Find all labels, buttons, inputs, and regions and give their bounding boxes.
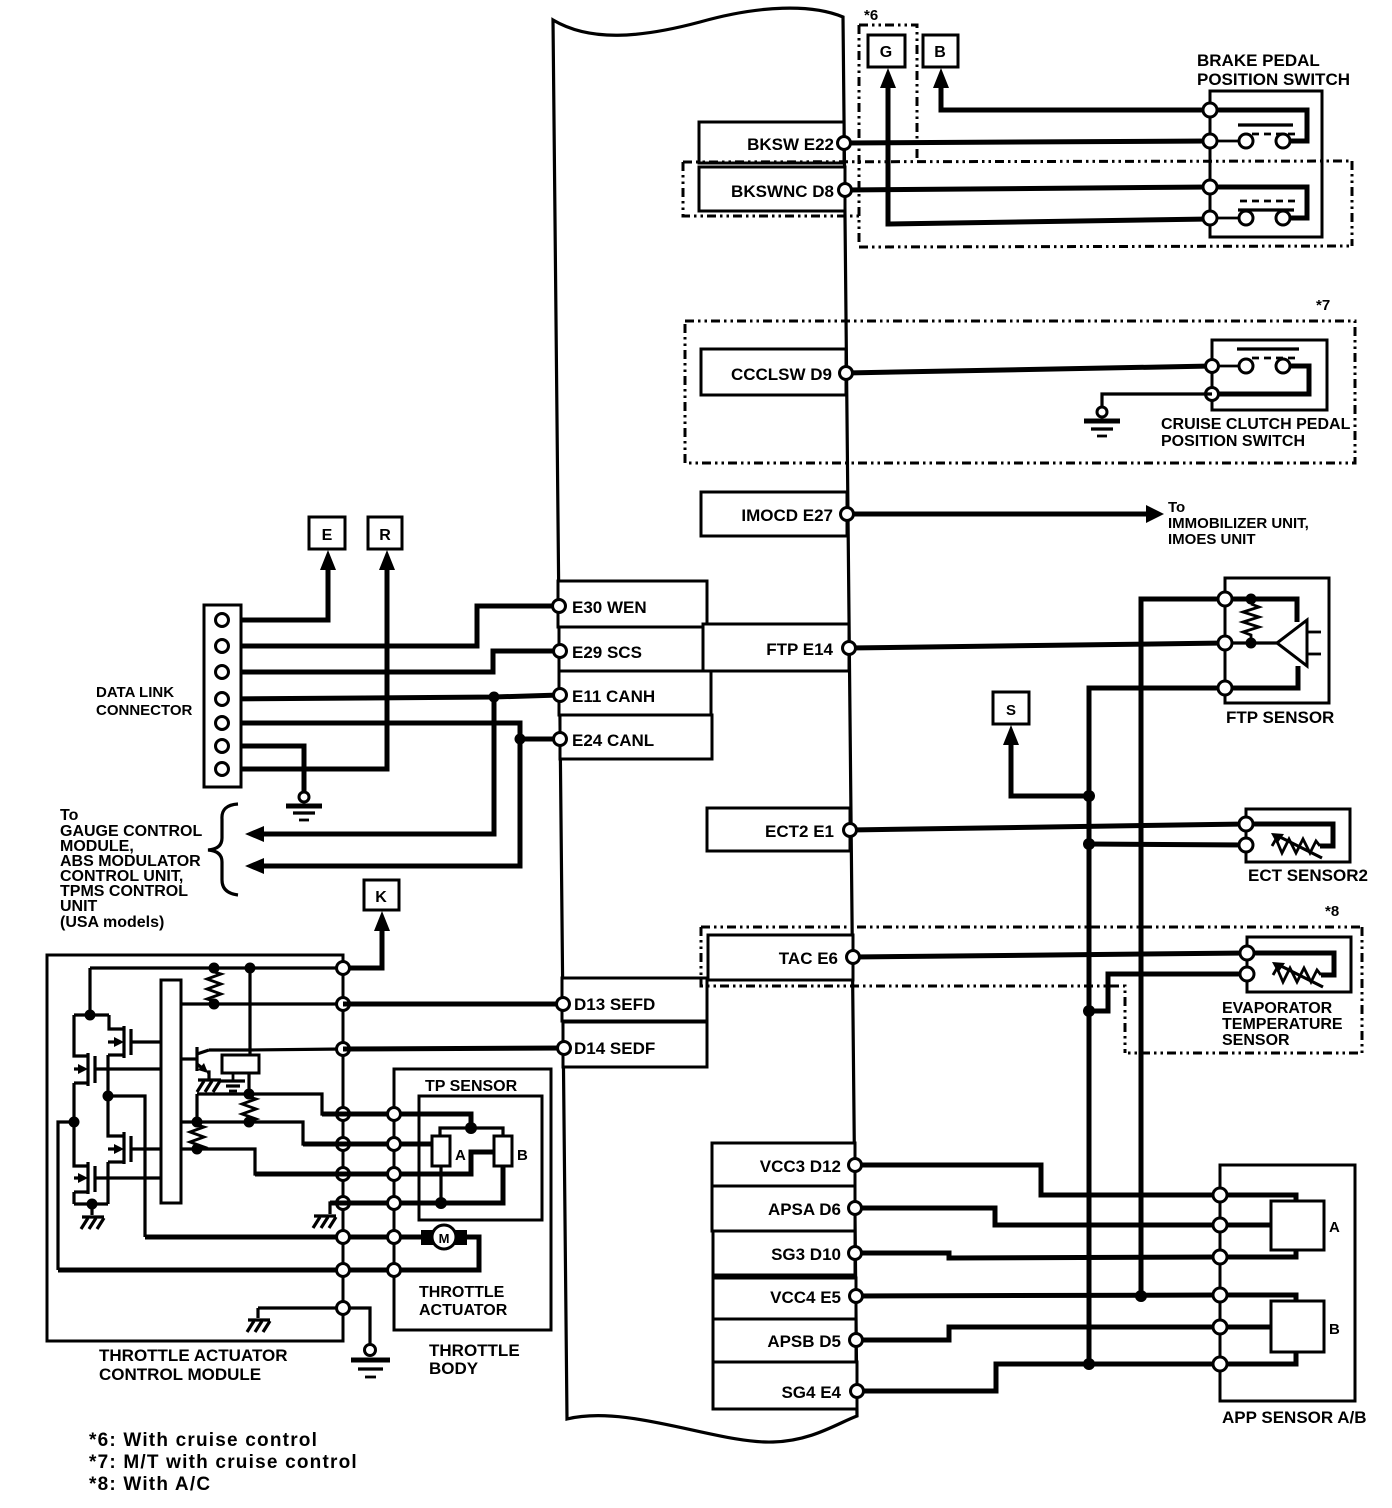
pin box E29 SCS — [559, 627, 709, 671]
svg-text:*8: With A/C: *8: With A/C — [89, 1474, 211, 1495]
svg-text:*6: *6 — [864, 7, 878, 24]
wire sensor-ground row stub — [330, 1203, 343, 1214]
node TP supply split — [465, 1122, 477, 1134]
wire split to A and B tops — [440, 1128, 503, 1136]
wire motor row A — [145, 1235, 421, 1240]
pin box D13 SEFD — [562, 978, 707, 1021]
wire CANL branch to gauge arrow — [245, 739, 520, 874]
svg-text:SG4 E4: SG4 E4 — [781, 1383, 841, 1402]
TACM connector pins — [337, 962, 350, 1315]
DLC pins — [216, 614, 229, 776]
wire DLC pin5 to E24 CANL — [222, 723, 560, 739]
connector B box — [923, 35, 958, 67]
pin box BKSW E22 — [699, 122, 844, 163]
node relay/R2 top — [244, 1089, 255, 1100]
svg-text:K: K — [375, 889, 387, 906]
wire bridge bottom rail — [74, 1202, 108, 1205]
FTP pins — [1218, 592, 1232, 695]
transistor Q3 (high side B) — [74, 1053, 161, 1086]
wire APP A top — [1220, 1195, 1296, 1201]
wire Q3 source to node B — [72, 1083, 75, 1122]
wire supply rail row — [90, 966, 343, 969]
wire top node spread — [74, 1013, 109, 1016]
wire CANH branch to gauge arrow — [245, 697, 494, 842]
svg-text:IMOCD E27: IMOCD E27 — [741, 506, 833, 525]
pin box APSA D6 — [712, 1186, 855, 1231]
transistor Q2 (high side A) — [108, 1026, 161, 1058]
evap pins — [1240, 946, 1254, 981]
svg-text:APP SENSOR A/B: APP SENSOR A/B — [1222, 1408, 1367, 1427]
svg-text:THROTTLE: THROTTLE — [419, 1284, 505, 1301]
svg-text:SENSOR: SENSOR — [1222, 1032, 1290, 1049]
wire APP A wiper — [1220, 1223, 1271, 1228]
*6 dash-dot boundary — [683, 25, 1352, 247]
svg-text:*7: *7 — [1316, 297, 1330, 314]
node FTP resistor bottom — [1246, 638, 1257, 649]
wire ECT2 E1 row — [850, 824, 1246, 830]
ground (TACM case) — [247, 1320, 270, 1332]
wire TP wiper B — [394, 1152, 494, 1174]
brace to gauge modules — [208, 804, 238, 895]
wire G to lower brake switch — [880, 68, 1210, 224]
wire relay to ground — [232, 1073, 235, 1080]
wire DLC pin4 to E11 CANH — [222, 695, 560, 699]
svg-text:To: To — [1168, 499, 1185, 516]
wire row to pin step — [181, 1149, 343, 1174]
svg-text:B: B — [517, 1147, 528, 1164]
wire BKSW E22 to switch — [844, 141, 1210, 143]
pin BKSWNC D8 — [839, 184, 852, 197]
wire IMOCD E27 to immobilizer — [847, 505, 1164, 523]
ECM pins E30 E29 E11 E24 — [553, 600, 567, 746]
potentiometer A (APP) — [1271, 1201, 1324, 1250]
node rail R1 — [209, 963, 220, 974]
svg-text:UNIT: UNIT — [60, 898, 98, 915]
TB connector pins — [388, 1108, 401, 1277]
ground (cruise switch) — [1084, 407, 1120, 436]
node bridge ground — [87, 1199, 98, 1210]
svg-text:THROTTLE ACTUATOR: THROTTLE ACTUATOR — [99, 1346, 288, 1365]
switch connector pins — [1203, 103, 1217, 225]
svg-text:ECT SENSOR2: ECT SENSOR2 — [1248, 866, 1368, 885]
connector G box — [868, 35, 905, 67]
pin box D14 SEDF — [563, 1022, 707, 1067]
thermistor evaporator — [1247, 953, 1334, 987]
wire stub to chassis ground — [256, 1308, 259, 1318]
*7 dash-dot box — [685, 321, 1355, 463]
wire row D13 from driver IC — [181, 1002, 343, 1005]
wire row from driver IC to SEDF step — [181, 1122, 343, 1144]
APP pins — [1213, 1188, 1227, 1371]
label To IMMOBILIZER UNIT — [1168, 499, 1309, 548]
wire to Q3 drain — [74, 1015, 88, 1056]
wire DLC pin1 to E — [222, 550, 336, 620]
node E24 CANL branch — [515, 734, 526, 745]
wire B to upper brake switch — [933, 68, 1210, 110]
pin box CCCLSW D9 — [701, 349, 846, 395]
ECM right side lower pins — [849, 1159, 864, 1398]
upper switch contacts and bar — [1210, 110, 1307, 148]
label THROTTLE ACTUATOR CONTROL MODULE — [99, 1346, 288, 1384]
wire row SEFD out — [197, 1094, 343, 1114]
svg-text:M: M — [439, 1231, 450, 1246]
wire FTP vcc down to VCC4 net — [1141, 599, 1225, 1296]
wire node B to motor row — [58, 1122, 74, 1270]
wire SG3 D10 row — [855, 1253, 1220, 1258]
node A (bridge output) — [103, 1091, 114, 1102]
svg-text:CONNECTOR: CONNECTOR — [96, 702, 193, 719]
wire rail to ground — [90, 1204, 93, 1215]
wire to Q2 drain — [109, 1015, 124, 1029]
resistor FTP pull-up — [1243, 604, 1259, 641]
svg-text:APSB D5: APSB D5 — [767, 1332, 841, 1351]
wire Q2 source to node A — [106, 1055, 109, 1096]
wire motor row B — [58, 1268, 394, 1273]
wire Q5 source to bottom rail — [72, 1192, 75, 1204]
potentiometer B (APP) — [1271, 1301, 1324, 1352]
pin FTP E14 — [843, 642, 856, 655]
connector K box — [364, 880, 399, 910]
svg-text:CONTROL MODULE: CONTROL MODULE — [99, 1365, 261, 1384]
svg-text:To: To — [60, 807, 79, 824]
wire node B to Q5 drain — [74, 1122, 88, 1166]
node rail relay feed — [245, 963, 256, 974]
pin box VCC4 E5 — [713, 1278, 856, 1319]
*8 dash-dot boundary — [701, 927, 1362, 1053]
wire FTP gnd down to SG4 net — [1089, 688, 1225, 1364]
ground (sensor return) — [313, 1216, 336, 1228]
cruise switch contacts — [1212, 349, 1309, 394]
connector S box — [993, 692, 1029, 724]
ground (H-bridge) — [81, 1217, 104, 1229]
svg-text:D14 SEDF: D14 SEDF — [574, 1039, 655, 1058]
wire D14 SEDF row — [343, 1048, 564, 1049]
node H-bridge top — [85, 1010, 96, 1021]
ground (data link connector) — [286, 792, 322, 820]
pin IMOCD E27 — [841, 508, 854, 521]
wire TP ground row — [394, 1166, 503, 1203]
resistor R1 — [207, 968, 221, 1004]
APP sensor box — [1220, 1165, 1355, 1401]
svg-text:POSITION SWITCH: POSITION SWITCH — [1161, 433, 1305, 450]
pin BKSW E22 — [838, 137, 851, 150]
pin box E11 CANH — [559, 671, 711, 715]
ground (Q1 emitter) — [197, 1080, 221, 1092]
wire S to SG4 net — [1003, 725, 1095, 802]
wire CCCLSW D9 to cruise switch — [846, 366, 1212, 373]
label CRUISE CLUTCH PEDAL POSITION SWITCH — [1161, 416, 1351, 450]
pin box APSB D5 — [713, 1319, 856, 1362]
transistor Q5 (low side B) — [74, 1162, 161, 1194]
svg-text:TEMPERATURE: TEMPERATURE — [1222, 1016, 1343, 1033]
wire APP B top — [1220, 1295, 1296, 1301]
wire bottom pin to earth ground — [343, 1308, 370, 1344]
connector R box — [368, 517, 402, 549]
wire DLC pin6 to ground — [222, 746, 304, 792]
pins D13 D14 — [557, 998, 571, 1055]
wire APSB D5 row — [856, 1327, 1220, 1340]
svg-text:FTP E14: FTP E14 — [766, 640, 833, 659]
pin box ECT2 E1 — [707, 808, 850, 851]
pin box SG3 D10 — [713, 1231, 855, 1275]
TACM box — [47, 955, 343, 1341]
svg-text:A: A — [1329, 1219, 1340, 1236]
ECT2 pins — [1239, 817, 1253, 852]
svg-text:IMOES UNIT: IMOES UNIT — [1168, 531, 1256, 548]
node R3 top — [192, 1117, 203, 1128]
node FTP resistor top — [1246, 594, 1257, 605]
wire FTP E14 row — [849, 643, 1225, 648]
ground (relay) — [221, 1081, 245, 1091]
node A bottom — [435, 1197, 447, 1209]
connector E box — [309, 517, 345, 549]
pin box TAC E6 — [708, 935, 853, 980]
pin box FTP E14 — [703, 624, 849, 671]
label THROTTLE BODY — [429, 1341, 520, 1378]
wire TP supply — [394, 1114, 471, 1128]
ground (throttle body earth) — [351, 1345, 390, 1378]
cruise clutch switch box — [1212, 340, 1327, 410]
svg-text:E29 SCS: E29 SCS — [572, 643, 642, 662]
wire relay to node — [247, 1073, 250, 1094]
TP sensor box — [419, 1096, 542, 1220]
wire A bottom — [439, 1166, 442, 1203]
pin box BKSWNC D8 — [699, 167, 845, 211]
wire TP wiper A — [394, 1142, 432, 1147]
wire DLC pin7 to R — [222, 550, 395, 769]
svg-text:BKSWNC D8: BKSWNC D8 — [731, 182, 834, 201]
svg-text:APSA D6: APSA D6 — [768, 1200, 841, 1219]
pin TAC E6 — [847, 951, 860, 964]
svg-text:POSITION SWITCH: POSITION SWITCH — [1197, 70, 1350, 89]
svg-text:B: B — [934, 44, 946, 61]
potentiometer A — [432, 1136, 450, 1166]
wire APP B bottom — [1220, 1352, 1296, 1364]
node R1 bottom — [209, 999, 220, 1010]
pin box E30 WEN — [558, 581, 707, 627]
ECT sensor2 box — [1246, 809, 1350, 862]
wire K to TACM — [343, 911, 390, 968]
svg-text:(USA models): (USA models) — [60, 914, 164, 931]
resistor R2 — [242, 1094, 256, 1122]
svg-text:CRUISE CLUTCH PEDAL: CRUISE CLUTCH PEDAL — [1161, 416, 1351, 433]
svg-text:G: G — [880, 44, 892, 61]
svg-text:BRAKE PEDAL: BRAKE PEDAL — [1197, 51, 1320, 70]
evaporator sensor box — [1247, 937, 1351, 992]
svg-text:E24 CANL: E24 CANL — [572, 731, 654, 750]
svg-text:*6: With cruise control: *6: With cruise control — [89, 1430, 318, 1451]
pin box E24 CANL — [560, 715, 712, 759]
svg-text:E11 CANH: E11 CANH — [572, 687, 655, 706]
driver IC bar — [161, 980, 181, 1203]
wire APSA D6 row — [855, 1208, 1220, 1225]
svg-text:TAC E6: TAC E6 — [779, 949, 838, 968]
svg-text:A: A — [455, 1147, 466, 1164]
FTP internal supply — [1225, 599, 1297, 622]
wire VCC4 E5 row — [856, 1290, 1220, 1302]
wire D13 SEFD row — [343, 1002, 563, 1007]
svg-text:ACTUATOR: ACTUATOR — [419, 1302, 508, 1319]
transistor Q4 (low side A) — [108, 1132, 161, 1164]
potentiometer B — [494, 1136, 512, 1166]
svg-text:SG3 D10: SG3 D10 — [771, 1245, 841, 1264]
wire node A to Q4 drain — [108, 1096, 124, 1136]
svg-text:EVAPORATOR: EVAPORATOR — [1222, 1000, 1333, 1017]
svg-text:FTP SENSOR: FTP SENSOR — [1226, 708, 1334, 727]
lower switch contacts and bar — [1210, 187, 1307, 225]
wire APP A bottom — [1220, 1250, 1296, 1257]
svg-text:B: B — [1329, 1321, 1340, 1338]
pin CCCLSW D9 — [840, 367, 853, 380]
label To GAUGE CONTROL MODULE list — [60, 807, 202, 931]
wire APP B wiper — [1220, 1325, 1271, 1330]
node B (bridge output) — [69, 1117, 80, 1128]
pin box IMOCD E27 — [701, 492, 847, 536]
svg-text:*7: M/T with cruise control: *7: M/T with cruise control — [89, 1452, 358, 1473]
wire row TACM to TB pins — [255, 1114, 394, 1203]
node R3 bottom — [192, 1144, 203, 1155]
wire relay feed vertical — [248, 968, 251, 1055]
wire R3 feed vertical — [195, 1094, 198, 1122]
label BRAKE PEDAL POSITION SWITCH — [1197, 51, 1350, 89]
svg-text:BKSW E22: BKSW E22 — [747, 135, 834, 154]
wire ECT2 return to SG4 net — [1083, 838, 1246, 850]
wire FTP signal — [1225, 641, 1277, 644]
svg-text:R: R — [379, 527, 391, 544]
svg-text:DATA LINK: DATA LINK — [96, 684, 174, 701]
wire SG4 E4 row — [857, 1358, 1220, 1391]
transistor Q1 — [181, 1047, 209, 1079]
resistor R3 — [190, 1122, 204, 1149]
wire VCC3 D12 row — [855, 1165, 1220, 1195]
wire bottom pin row to grounds — [258, 1306, 343, 1309]
ECM/PCM body outline (torn edges) — [553, 8, 857, 1442]
FTP sensor box — [1225, 578, 1329, 703]
pin ECT2 E1 — [844, 824, 857, 837]
wire H-bridge top feed — [88, 968, 91, 1015]
svg-text:CCCLSW D9: CCCLSW D9 — [731, 365, 832, 384]
pin box VCC3 D12 — [712, 1143, 855, 1186]
label EVAPORATOR TEMPERATURE SENSOR — [1222, 1000, 1343, 1049]
cruise switch pins — [1206, 360, 1219, 401]
wire motor return — [394, 1237, 479, 1270]
svg-text:IMMOBILIZER UNIT,: IMMOBILIZER UNIT, — [1168, 515, 1309, 532]
svg-text:*8: *8 — [1325, 903, 1339, 920]
brake pedal position switch box — [1210, 91, 1322, 237]
throttle body box — [394, 1069, 551, 1330]
wire row D14 collector — [209, 1049, 343, 1050]
wire BKSWNC D8 to switch — [845, 187, 1210, 190]
svg-text:VCC4 E5: VCC4 E5 — [770, 1288, 841, 1307]
label THROTTLE ACTUATOR — [419, 1284, 508, 1319]
svg-text:BODY: BODY — [429, 1359, 479, 1378]
wire evap return to SG4 net — [1083, 974, 1247, 1017]
svg-text:E30 WEN: E30 WEN — [572, 598, 647, 617]
node R2 bottom — [244, 1117, 255, 1128]
svg-text:TP SENSOR: TP SENSOR — [425, 1078, 518, 1095]
svg-text:D13 SEFD: D13 SEFD — [574, 995, 655, 1014]
data link connector body — [204, 605, 241, 787]
relay coil box — [222, 1055, 259, 1073]
motor M — [421, 1225, 467, 1249]
thermistor ECT2 — [1246, 824, 1333, 858]
wire DLC pin3 to E29 SCS — [222, 651, 560, 672]
wire Q4 source to bottom rail — [106, 1162, 109, 1204]
wire cruise switch to ground — [1102, 394, 1212, 407]
svg-text:THROTTLE: THROTTLE — [429, 1341, 520, 1360]
pin box SG4 E4 — [713, 1362, 857, 1409]
svg-text:VCC3 D12: VCC3 D12 — [760, 1157, 841, 1176]
wire TAC E6 row — [853, 953, 1247, 957]
node E11 CANH branch — [489, 692, 500, 703]
label DATA LINK CONNECTOR — [96, 684, 193, 719]
wire FTP return — [1225, 666, 1298, 688]
wire DLC pin2 to E30 WEN — [222, 606, 559, 646]
op-amp U1 (FTP buffer) — [1277, 620, 1321, 666]
svg-text:E: E — [322, 527, 333, 544]
svg-text:ECT2 E1: ECT2 E1 — [765, 822, 834, 841]
svg-text:S: S — [1006, 702, 1016, 719]
wire node A to motor row — [108, 1096, 145, 1237]
